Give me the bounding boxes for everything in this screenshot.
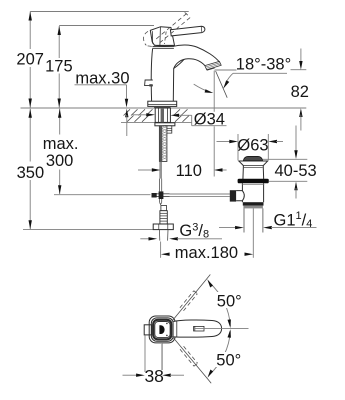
dim 110 (138, 168, 227, 171)
threaded shank (159, 126, 167, 162)
dim 350 vertical line (29, 109, 32, 230)
svg-text:350: 350 (17, 164, 45, 182)
handle top view tab (144, 325, 152, 335)
drain o-ring (238, 179, 269, 184)
svg-text:Ø63: Ø63 (237, 137, 268, 155)
supply hose top (161, 206, 167, 211)
wire 350 bottom extension line (23, 229, 153, 231)
50 deg upper dashed lever (180, 291, 198, 311)
50 deg lower dashed lever (180, 346, 198, 366)
rod collar (230, 190, 236, 201)
tab on faucet body left (145, 80, 153, 87)
handle base inner (155, 322, 170, 338)
dashed handle raised position (144, 12, 191, 46)
lever centerline (195, 328, 249, 330)
50 deg upper reference line (172, 275, 210, 322)
dim diameter 63 (217, 134, 284, 161)
supply hex nut (153, 224, 173, 230)
drain centerline (252, 208, 254, 257)
handle base outer (149, 316, 175, 343)
supply hose threads (160, 211, 167, 224)
wire deck top line (21, 107, 307, 109)
handle base mid (151, 318, 173, 341)
handle center extension down (161, 343, 163, 370)
pivot dots (166, 323, 168, 325)
lower 50 deg arc (208, 329, 231, 378)
faucet spout (174, 45, 220, 69)
label diameter 34 with leader (133, 113, 227, 126)
dim G3/8 (140, 237, 222, 240)
lever arm top view (174, 320, 222, 337)
drain flange cap (243, 156, 262, 160)
wire spout reach extension line (213, 71, 215, 177)
svg-text:38: 38 (144, 366, 163, 386)
50 deg lower reference line (172, 336, 211, 383)
dim 175 vertical line (58, 26, 61, 108)
dim 207 vertical line (29, 12, 32, 108)
wire max.300 bottom extension line (54, 194, 151, 196)
svg-text:G3/8: G3/8 (179, 222, 209, 241)
cross tee fitting (152, 191, 170, 199)
svg-text:207: 207 (16, 51, 44, 69)
drain lower nut (243, 202, 264, 205)
shank in deck (155, 108, 170, 122)
handle knob (150, 27, 174, 46)
svg-text:max.: max. (43, 135, 79, 153)
wire 175 extension line top (59, 25, 154, 27)
locknut below deck (155, 123, 175, 133)
aerator (205, 61, 221, 70)
faucet centerline lower (160, 242, 162, 258)
dim 40-53 (263, 126, 308, 199)
svg-text:Ø34: Ø34 (194, 111, 225, 129)
svg-text:50°: 50° (217, 293, 242, 311)
svg-text:G11/4: G11/4 (274, 210, 313, 230)
pop-up rod horizontal (170, 194, 230, 196)
svg-text:175: 175 (45, 58, 73, 76)
wire deck bottom line (121, 121, 192, 123)
dim max.180 (161, 253, 253, 256)
handle pivot D (159, 325, 164, 334)
spray angle arc with arrow (194, 84, 214, 93)
upper 50 deg arc (207, 279, 231, 328)
label 50 deg upper (215, 292, 242, 311)
svg-text:max.180: max.180 (175, 244, 238, 262)
svg-text:50°: 50° (216, 352, 241, 370)
svg-text:110: 110 (176, 162, 202, 180)
svg-text:300: 300 (46, 152, 74, 170)
drain tailpipe (244, 208, 263, 232)
dim 82 (291, 49, 307, 131)
dim 38 (123, 335, 185, 377)
drain body (242, 183, 264, 202)
wire 207 extension line top (30, 11, 189, 13)
label 50 deg lower (214, 352, 241, 370)
supply tube (159, 230, 168, 241)
faucet base plinth (148, 101, 177, 106)
svg-text:82: 82 (291, 83, 309, 101)
dim G1 1/4 (219, 226, 317, 229)
handle base dark band (153, 320, 171, 340)
faucet base shadow (154, 107, 171, 108)
dim max.300 vertical line (58, 109, 61, 195)
drain flange (238, 161, 268, 180)
wire spout height extension line (215, 69, 237, 71)
drain side port (236, 191, 244, 201)
leader arrow to spray angle line (223, 73, 233, 89)
svg-text:18°-38°: 18°-38° (236, 56, 291, 74)
deck hatching (124, 109, 190, 122)
handle lever bar (170, 26, 205, 36)
dim max.30 under-deck arrow (125, 109, 128, 136)
faucet body (151, 47, 184, 102)
spray angle line 38 (216, 71, 228, 98)
svg-text:40-53: 40-53 (274, 162, 316, 180)
pull rod vertical (160, 162, 162, 205)
